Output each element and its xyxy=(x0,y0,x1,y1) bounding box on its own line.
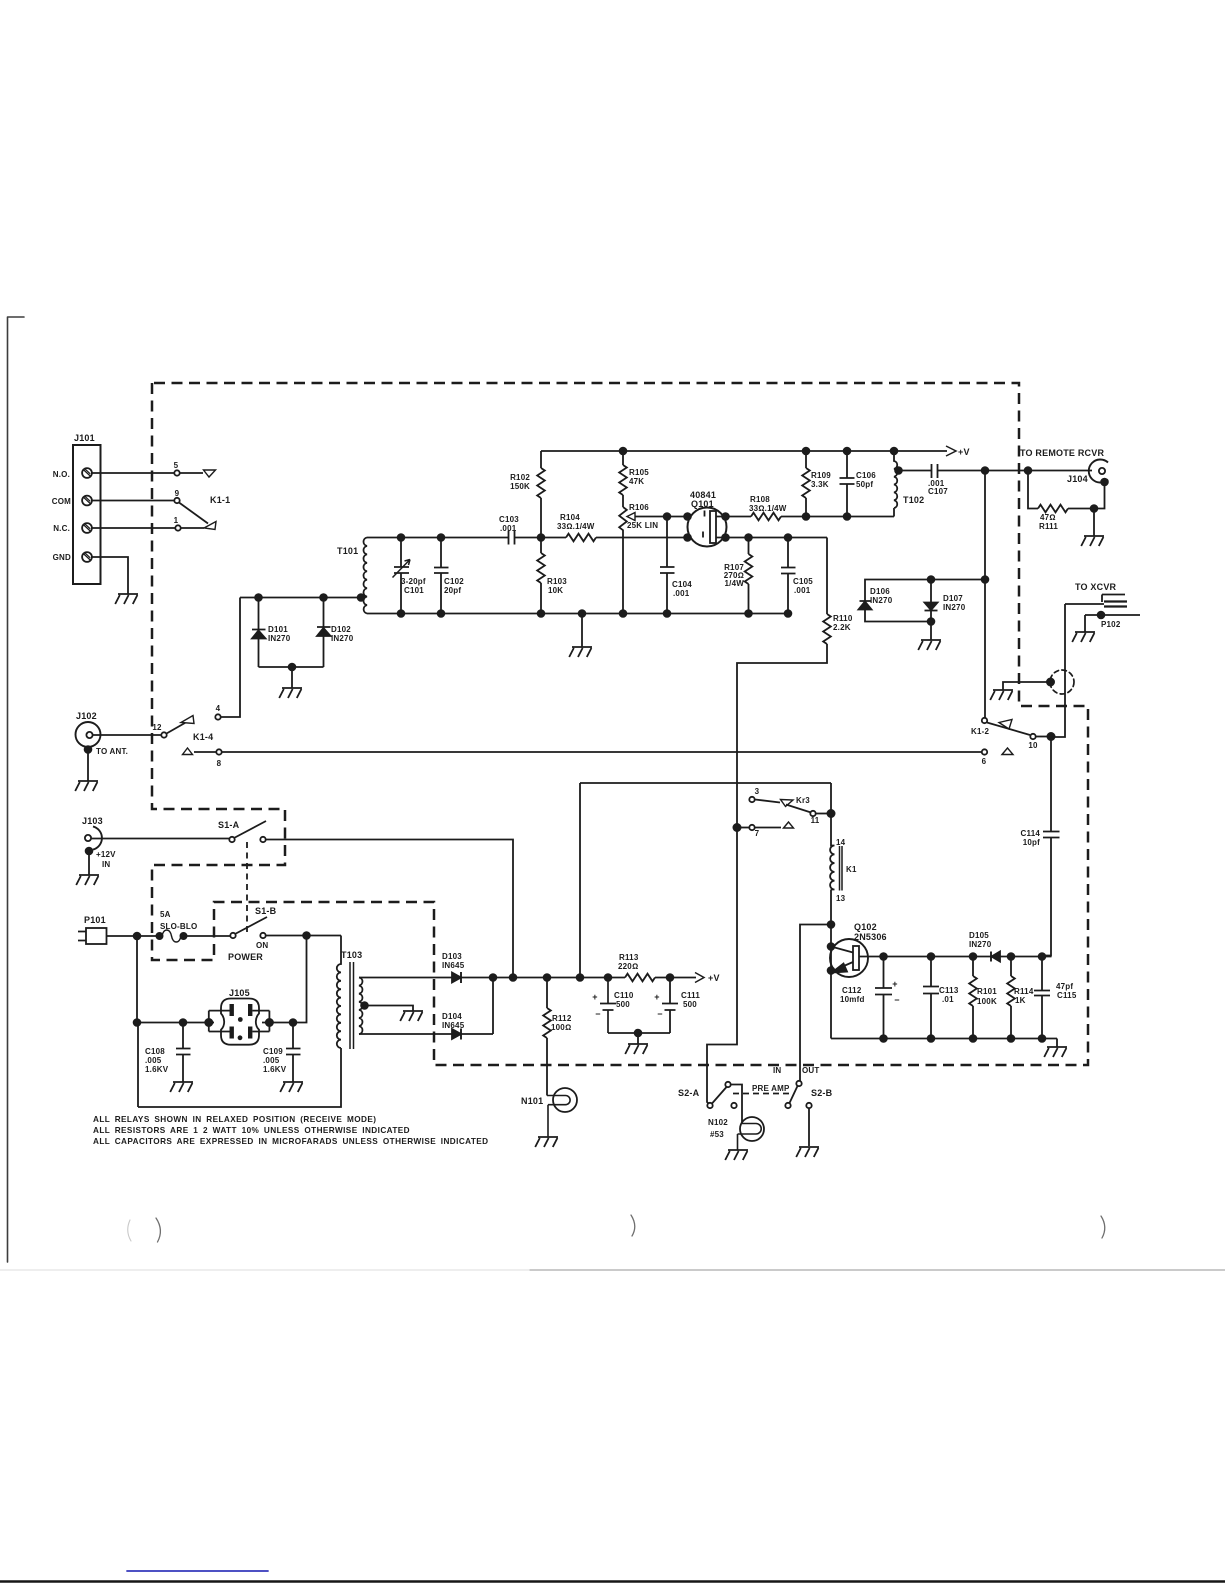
svg-text:TO ANT.: TO ANT. xyxy=(96,747,128,756)
jack J103 xyxy=(93,826,102,849)
switch S2-A xyxy=(707,1103,712,1108)
svg-text:PRE AMP: PRE AMP xyxy=(752,1084,790,1093)
switch S1-A xyxy=(229,837,234,842)
ground D107 xyxy=(930,622,932,641)
svg-text:14: 14 xyxy=(836,838,846,847)
node rail C105 xyxy=(785,610,792,617)
node D107 top xyxy=(928,576,935,583)
wire S2-A to lamp xyxy=(731,1085,742,1124)
capacitor C108 xyxy=(176,1023,191,1083)
node C101 top xyxy=(398,534,405,541)
dashed gang link S1-A to S1-B xyxy=(246,842,248,933)
svg-text:R111: R111 xyxy=(1039,522,1058,531)
svg-text:R110: R110 xyxy=(833,614,853,623)
node R101 top xyxy=(970,953,977,960)
svg-text:47pf: 47pf xyxy=(1056,982,1073,991)
node coil tap xyxy=(358,594,365,601)
resistor R105 xyxy=(622,451,624,465)
svg-text:33Ω.1/4W: 33Ω.1/4W xyxy=(749,504,787,513)
svg-text:P101: P101 xyxy=(84,915,106,925)
svg-text:8: 8 xyxy=(217,759,222,768)
transformer T101 winding xyxy=(363,538,367,614)
svg-text:C102: C102 xyxy=(444,577,464,586)
svg-text:IN270: IN270 xyxy=(268,634,291,643)
svg-text:C113: C113 xyxy=(939,986,959,995)
svg-text:100K: 100K xyxy=(977,997,997,1006)
page curl mark 1 xyxy=(128,1220,131,1241)
blade arrow K1-4 xyxy=(181,716,194,724)
svg-text:C110: C110 xyxy=(614,991,634,1000)
svg-text:T102: T102 xyxy=(903,495,924,505)
diode D107 xyxy=(925,580,938,611)
node wiper/C104 xyxy=(664,513,671,520)
svg-text:ALL RELAYS SHOWN IN RELAXED PO: ALL RELAYS SHOWN IN RELAXED POSITION (RE… xyxy=(93,1115,376,1124)
ground S2-B xyxy=(796,1147,819,1157)
blade arrow K1-2 xyxy=(999,720,1012,730)
wire plate line xyxy=(726,538,828,615)
svg-text:T101: T101 xyxy=(337,546,358,556)
coax jack J102 xyxy=(76,722,101,747)
svg-text:K1-2: K1-2 xyxy=(971,727,989,736)
svg-text:D103: D103 xyxy=(442,952,462,961)
ground P102 xyxy=(1084,615,1086,632)
wire contact4 up to diode bus xyxy=(221,598,240,718)
wire shield to ground xyxy=(1003,682,1051,690)
svg-text:TO XCVR: TO XCVR xyxy=(1075,582,1117,592)
svg-text:D105: D105 xyxy=(969,931,989,940)
svg-text:R101: R101 xyxy=(977,987,997,996)
wire screen line / R108 xyxy=(726,516,752,518)
svg-text:R113: R113 xyxy=(619,953,639,962)
svg-text:IN: IN xyxy=(102,860,110,869)
svg-text:25K LIN: 25K LIN xyxy=(627,521,658,530)
diode D103 xyxy=(452,973,461,983)
wire XCVR down xyxy=(1051,604,1104,737)
svg-text:ON: ON xyxy=(256,941,268,950)
node C102 bottom xyxy=(438,610,445,617)
svg-text:S2-B: S2-B xyxy=(811,1088,833,1098)
+12V rail xyxy=(493,977,696,979)
page curl mark 3 xyxy=(1101,1216,1105,1238)
plug P101 xyxy=(86,928,107,944)
resistor R102 xyxy=(540,451,542,468)
svg-text:R106: R106 xyxy=(629,503,649,512)
svg-text:#53: #53 xyxy=(710,1130,724,1139)
relay contact 3 xyxy=(749,797,754,802)
wire contact 7 xyxy=(755,827,781,829)
node diode common xyxy=(289,664,296,671)
svg-text:.001: .001 xyxy=(500,524,517,533)
resistor R113 xyxy=(625,974,655,982)
node C110 top xyxy=(605,974,612,981)
ground C110 C111 xyxy=(625,1044,648,1054)
svg-text:ALL RESISTORS ARE 1 2 WATT 10%: ALL RESISTORS ARE 1 2 WATT 10% UNLESS OT… xyxy=(93,1126,410,1135)
node D107 bottom xyxy=(928,618,935,625)
ground C109 xyxy=(280,1082,303,1092)
neon lamp N101 xyxy=(553,1088,577,1112)
relay driver feed rail xyxy=(580,783,831,978)
wire R104 to tube xyxy=(596,537,688,539)
bottom bus xyxy=(831,1039,1057,1048)
svg-text:10mfd: 10mfd xyxy=(840,995,865,1004)
wire lower conductor xyxy=(137,936,214,1023)
svg-text:GND: GND xyxy=(53,553,71,562)
relay contact 7 xyxy=(749,825,754,830)
node C106 bottom xyxy=(844,513,851,520)
svg-text:R105: R105 xyxy=(629,468,649,477)
wire secondary bottom to D104 xyxy=(359,1033,452,1035)
svg-text:20pf: 20pf xyxy=(444,586,461,595)
relay K1-2 blade xyxy=(987,723,1030,736)
capacitor C110 xyxy=(600,978,638,1034)
node R114 top xyxy=(1008,953,1015,960)
diode D102 xyxy=(317,598,331,628)
svg-text:2N5306: 2N5306 xyxy=(854,932,887,942)
capacitor C101 (variable) xyxy=(394,538,409,614)
svg-text:1: 1 xyxy=(174,516,179,525)
relay contact 4 xyxy=(215,714,220,719)
diode D105 xyxy=(990,952,992,962)
capacitor C115 xyxy=(1034,957,1050,1039)
wire center tap to ground xyxy=(365,1006,414,1012)
svg-text:C104: C104 xyxy=(672,580,692,589)
svg-text:4: 4 xyxy=(216,704,221,713)
relay contact 1 xyxy=(175,525,180,530)
wire J101 N.C. to contact 1 xyxy=(92,527,175,529)
svg-text:IN270: IN270 xyxy=(943,603,966,612)
capacitor C111 xyxy=(638,978,678,1034)
node R109 top xyxy=(803,448,810,455)
svg-text:Q102: Q102 xyxy=(854,922,877,932)
node Kr3 feed xyxy=(577,974,584,981)
svg-text:D102: D102 xyxy=(331,625,351,634)
svg-text:D106: D106 xyxy=(870,587,890,596)
wire J103 to S1-A xyxy=(91,838,229,840)
svg-text:C112: C112 xyxy=(842,986,862,995)
svg-text:R103: R103 xyxy=(547,577,567,586)
svg-text:R104: R104 xyxy=(560,513,580,522)
relay contact 5 xyxy=(174,470,179,475)
node shield dot in dashed circle xyxy=(1047,678,1054,685)
node R107 top xyxy=(745,534,752,541)
svg-text:Kr3: Kr3 xyxy=(796,796,810,805)
potentiometer R106 xyxy=(619,507,627,614)
dashed enclosure boundary xyxy=(152,383,1088,1065)
node rail R107 xyxy=(745,610,752,617)
node C102 top xyxy=(438,534,445,541)
ground D101/D102 xyxy=(279,688,302,698)
svg-text:IN645: IN645 xyxy=(442,961,465,970)
svg-text:50pf: 50pf xyxy=(856,480,873,489)
node rail C104 xyxy=(664,610,671,617)
capacitor C102 xyxy=(434,538,449,614)
capacitor C104 xyxy=(660,517,675,614)
node C108 top xyxy=(180,1019,187,1026)
ground C108 xyxy=(170,1082,193,1092)
switch S1-B xyxy=(230,933,235,938)
plug P102 line xyxy=(1085,614,1140,616)
diode D104 xyxy=(452,1029,461,1039)
relay Kr3 blade xyxy=(786,805,811,813)
node contact 11 xyxy=(827,810,834,817)
svg-text:R114: R114 xyxy=(1014,987,1034,996)
svg-text:1K: 1K xyxy=(1015,996,1026,1005)
svg-text:C115: C115 xyxy=(1057,991,1077,1000)
svg-text:47Ω: 47Ω xyxy=(1040,513,1056,522)
node rail R106 xyxy=(620,610,627,617)
wire AC return branch xyxy=(262,936,307,1023)
svg-text:500: 500 xyxy=(683,1000,697,1009)
svg-text:1.6KV: 1.6KV xyxy=(263,1065,287,1074)
node C115 top xyxy=(1039,953,1046,960)
node R114 bottom xyxy=(1008,1035,1015,1042)
svg-text:10pf: 10pf xyxy=(1023,838,1040,847)
svg-text:−: − xyxy=(595,1009,600,1019)
contact arrow 3 xyxy=(781,800,794,807)
svg-text:J103: J103 xyxy=(82,816,103,826)
svg-text:K1-1: K1-1 xyxy=(210,495,230,505)
page curl mark 2 xyxy=(631,1215,635,1236)
relay contact 9 xyxy=(174,498,179,503)
connector J105 xyxy=(221,999,259,1045)
svg-text:T103: T103 xyxy=(341,950,362,960)
svg-text:C111: C111 xyxy=(681,991,700,1000)
contact arrow N.O. xyxy=(204,470,216,477)
contact arrow K1-4 lower xyxy=(183,748,193,755)
svg-text:+: + xyxy=(592,992,597,1002)
wire fuse to S1-B xyxy=(186,935,230,937)
wire J101 N.O. to contact 5 xyxy=(92,472,174,474)
svg-text:S1-B: S1-B xyxy=(255,906,277,916)
svg-text:11: 11 xyxy=(811,816,820,825)
node R109 bottom xyxy=(803,513,810,520)
svg-text:J102: J102 xyxy=(76,711,97,721)
node C107 out xyxy=(982,467,989,474)
node rail gnd stem xyxy=(579,610,586,617)
node diode box top xyxy=(982,576,989,583)
svg-text:IN270: IN270 xyxy=(969,940,992,949)
wire J101 GND xyxy=(92,557,128,594)
svg-text:−: − xyxy=(657,1009,662,1019)
svg-text:10: 10 xyxy=(1028,741,1038,750)
node loop left xyxy=(134,1019,141,1026)
arrow +V top xyxy=(946,446,956,456)
diode D101 xyxy=(252,598,266,630)
svg-text:9: 9 xyxy=(175,489,180,498)
node Q102 base xyxy=(828,943,835,950)
collector rail xyxy=(884,956,992,958)
svg-text:POWER: POWER xyxy=(228,952,263,962)
resistor R103 xyxy=(540,538,542,554)
relay contact 11 xyxy=(810,811,815,816)
resistor R112 xyxy=(546,978,548,1009)
node C111 top xyxy=(667,974,674,981)
svg-text:SLO-BLO: SLO-BLO xyxy=(160,922,197,931)
svg-text:C105: C105 xyxy=(793,577,813,586)
resistor R101 xyxy=(972,957,974,977)
node C113 top xyxy=(928,953,935,960)
main vertical C107 to K1-2 xyxy=(984,471,986,719)
node C101 bottom xyxy=(398,610,405,617)
diode D106 xyxy=(859,601,872,610)
svg-text:COM: COM xyxy=(52,497,71,506)
relay contact 12 xyxy=(161,732,166,737)
svg-text:100Ω: 100Ω xyxy=(551,1023,571,1032)
svg-text:J104: J104 xyxy=(1067,474,1088,484)
resistor R104 xyxy=(566,534,596,542)
relay contact 10 xyxy=(1030,734,1035,739)
svg-text:S1-A: S1-A xyxy=(218,820,240,830)
svg-text:P102: P102 xyxy=(1101,620,1121,629)
svg-text:500: 500 xyxy=(616,1000,630,1009)
bottom rail xyxy=(541,613,788,615)
ground J103 xyxy=(76,875,99,885)
wire tank top rail xyxy=(367,537,508,539)
node P101 lower conductor xyxy=(134,933,141,940)
svg-text:R112: R112 xyxy=(552,1014,572,1023)
svg-text:N.O.: N.O. xyxy=(53,470,70,479)
transformer T103 secondary xyxy=(359,978,362,1035)
tube Q101 xyxy=(688,508,727,547)
svg-text:C103: C103 xyxy=(499,515,519,524)
dashed gang link S2 PRE AMP xyxy=(733,1093,790,1095)
svg-text:N.C.: N.C. xyxy=(53,524,70,533)
ground bottom bus xyxy=(1044,1047,1067,1057)
dashed circle (feedthrough) xyxy=(1050,670,1074,694)
svg-text:K1: K1 xyxy=(846,865,857,874)
node C112 bottom xyxy=(880,1035,887,1042)
ground shield xyxy=(990,690,1013,700)
node contact10 / C114 xyxy=(1036,736,1051,738)
svg-text:OUT: OUT xyxy=(802,1066,820,1075)
node rectifier junction xyxy=(490,974,497,981)
wire gate feed xyxy=(667,516,688,518)
page bottom faint rule xyxy=(0,1269,530,1271)
transistor Q102 xyxy=(830,939,868,977)
wire J104 shell down xyxy=(1094,482,1105,509)
relay contact 6 xyxy=(982,749,987,754)
svg-text:5A: 5A xyxy=(160,910,171,919)
relay K1-1 blade xyxy=(179,503,208,524)
node contact 7 xyxy=(733,824,740,831)
arrow +V low xyxy=(695,973,704,983)
terminal strip J101 xyxy=(73,445,101,584)
resistor R111 xyxy=(1028,471,1038,509)
svg-text:10K: 10K xyxy=(548,586,563,595)
svg-text:D101: D101 xyxy=(268,625,288,634)
node Q102 collector xyxy=(880,953,887,960)
ground bottom rail xyxy=(581,614,583,648)
fuse 5A SLO-BLO xyxy=(156,933,162,939)
diode box D106 D107 xyxy=(865,580,985,602)
svg-text:N102: N102 xyxy=(708,1118,728,1127)
wire secondary top to D103 xyxy=(359,977,452,979)
page edge line left xyxy=(8,317,25,1262)
relay coil K1 xyxy=(830,814,834,925)
svg-text:R108: R108 xyxy=(750,495,770,504)
resistor R110 xyxy=(823,614,831,644)
node S1-A drop xyxy=(510,974,517,981)
supply top rail xyxy=(541,450,947,452)
svg-text:R102: R102 xyxy=(510,473,530,482)
wire contact 3 xyxy=(755,800,780,803)
wire coil tap to diodes xyxy=(240,597,362,599)
node T102 tap xyxy=(895,467,902,474)
node secondary center tap xyxy=(361,1002,368,1009)
pot wiper arrow R106 xyxy=(627,513,635,521)
svg-text:.005: .005 xyxy=(263,1056,280,1065)
ground N101 xyxy=(535,1137,558,1147)
capacitor C114 xyxy=(1042,737,1060,956)
capacitor C103 xyxy=(509,531,567,545)
node D102 top xyxy=(320,594,327,601)
contact arrow 6 xyxy=(1002,748,1013,755)
svg-text:R109: R109 xyxy=(811,471,831,480)
svg-text:IN270: IN270 xyxy=(870,596,893,605)
svg-text:C108: C108 xyxy=(145,1047,165,1056)
wire R110 to Kr3 bus xyxy=(707,644,827,1104)
wire to J104 xyxy=(985,470,1092,472)
node C110/C111 gnd xyxy=(635,1030,642,1037)
svg-text:7: 7 xyxy=(755,829,760,838)
relay contact 8 xyxy=(216,749,221,754)
svg-text:−: − xyxy=(894,995,899,1005)
node primary branch xyxy=(303,932,310,939)
node rail R103 xyxy=(538,610,545,617)
capacitor C107 xyxy=(899,464,986,478)
svg-text:+V: +V xyxy=(958,447,970,457)
coax jack J104 xyxy=(1089,459,1108,482)
wire J102 to contact 12 xyxy=(93,734,161,736)
svg-text:5: 5 xyxy=(174,461,179,470)
node C109 top xyxy=(290,1019,297,1026)
svg-text:N101: N101 xyxy=(521,1096,543,1106)
wire P101 to fuse xyxy=(107,935,158,937)
svg-text:12: 12 xyxy=(152,723,162,732)
svg-text:150K: 150K xyxy=(510,482,530,491)
wire S1-B out xyxy=(266,935,341,937)
svg-text:1.6KV: 1.6KV xyxy=(145,1065,169,1074)
svg-text:Q101: Q101 xyxy=(691,499,714,509)
node C105 top xyxy=(785,534,792,541)
node R111 right xyxy=(1091,505,1098,512)
pilot lamp N102 xyxy=(740,1117,764,1141)
node C106 top xyxy=(844,448,851,455)
node C115 bottom xyxy=(1039,1035,1046,1042)
relay K1-4 blade xyxy=(167,720,192,734)
wire J101 COM to contact 9 xyxy=(92,500,174,502)
transformer T103 core xyxy=(350,962,354,1049)
node R112 top xyxy=(544,974,551,981)
svg-text:1/4W: 1/4W xyxy=(725,579,745,588)
transformer T102 xyxy=(894,451,897,517)
contact arrow 7 xyxy=(784,822,794,828)
svg-text:C109: C109 xyxy=(263,1047,283,1056)
svg-text:IN: IN xyxy=(773,1066,781,1075)
svg-text:D107: D107 xyxy=(943,594,963,603)
wire diode common xyxy=(259,667,324,688)
svg-text:C106: C106 xyxy=(856,471,876,480)
svg-text:J101: J101 xyxy=(74,433,95,443)
node J105 right xyxy=(266,1019,273,1026)
svg-text:13: 13 xyxy=(836,894,846,903)
svg-text:.001: .001 xyxy=(794,586,811,595)
svg-text:6: 6 xyxy=(982,757,987,766)
svg-text:IN270: IN270 xyxy=(331,634,354,643)
wire Q102 left bus xyxy=(830,925,832,1039)
contact arrow N.C. xyxy=(204,522,216,530)
svg-text:+: + xyxy=(892,979,897,989)
